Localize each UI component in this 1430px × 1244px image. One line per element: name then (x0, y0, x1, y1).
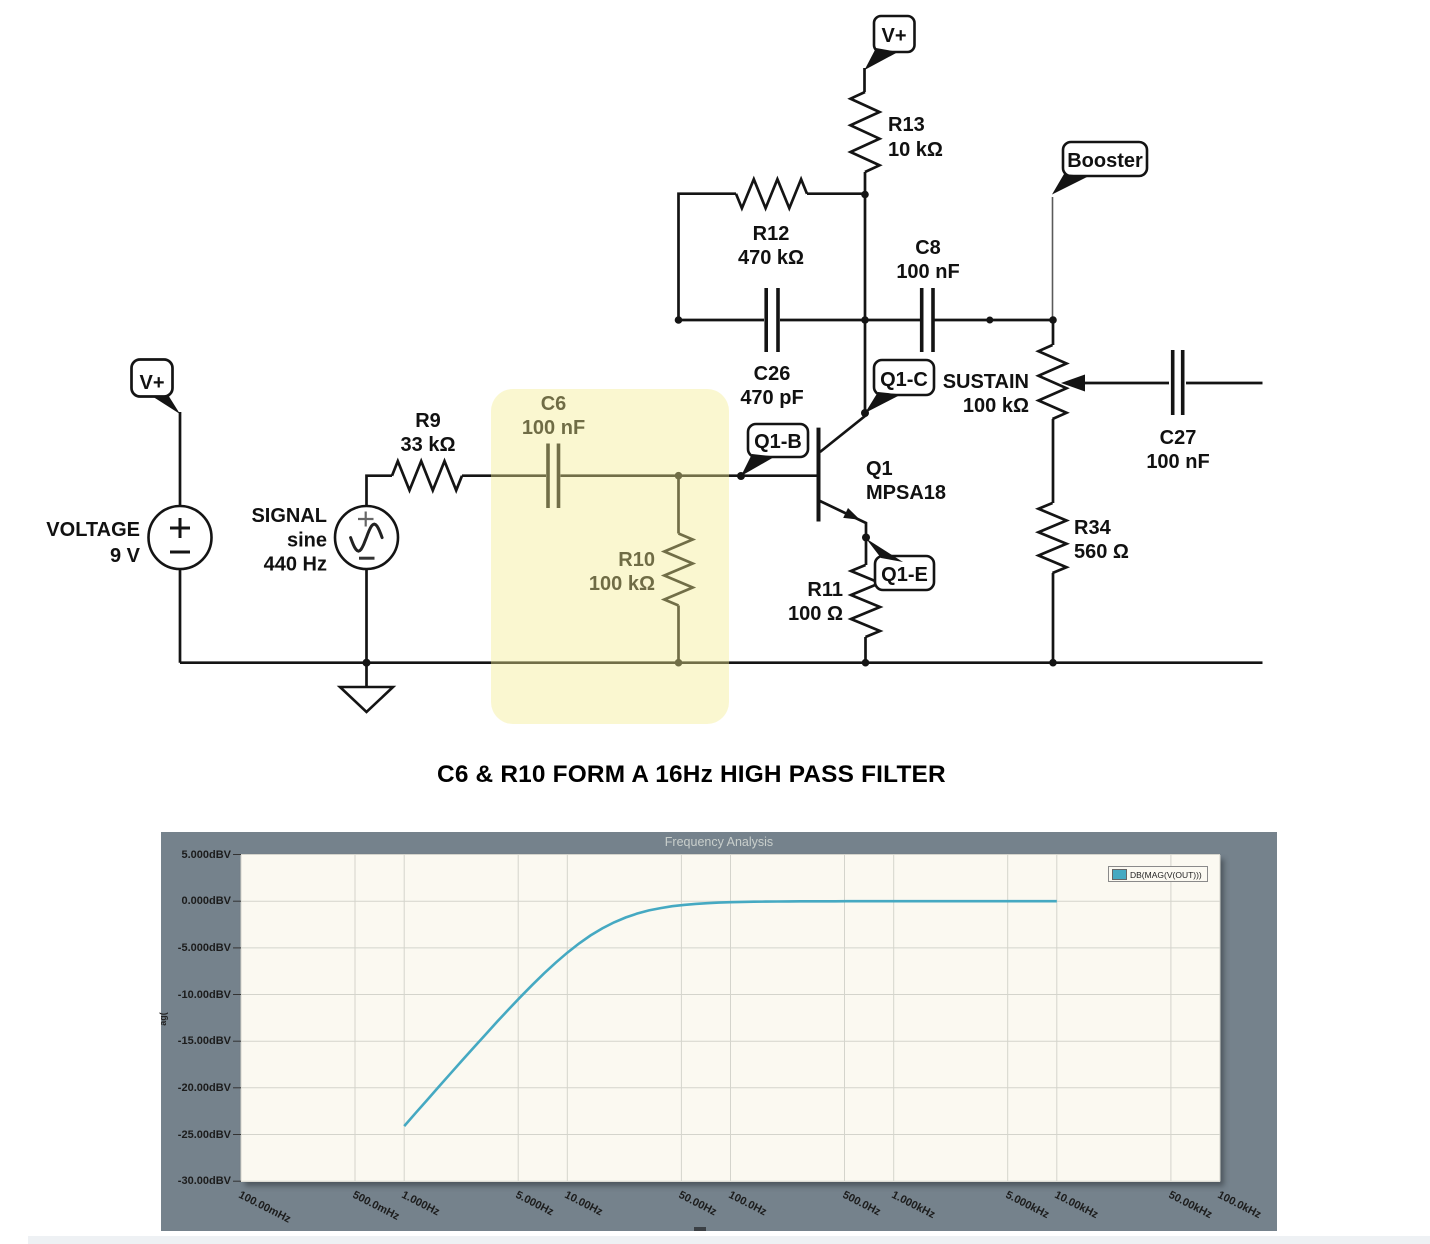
capacitor C26 (740, 288, 803, 409)
wire R10 top (677, 476, 680, 534)
grid (241, 855, 1220, 1182)
scrollbar caret (694, 1227, 706, 1231)
wire R12 top line (679, 194, 866, 320)
voltage source V1 (46, 506, 211, 569)
resistor R12 (736, 179, 807, 269)
svg-text:R9: R9 (415, 410, 441, 432)
response curve (404, 901, 1057, 1126)
highlight C6-R10 (491, 389, 729, 724)
callout Q1-C (865, 360, 934, 413)
wire V+ to R13 (863, 68, 866, 92)
svg-text:470 kΩ: 470 kΩ (738, 247, 804, 269)
axis ticks (233, 855, 241, 1182)
wire wiper to C27 (1085, 382, 1169, 385)
ground rail (180, 661, 1263, 664)
svg-text:R12: R12 (753, 223, 790, 245)
svg-text:R34: R34 (1074, 517, 1112, 539)
svg-text:C27: C27 (1160, 427, 1197, 449)
wire R13 to node (864, 172, 867, 195)
flag V+ top (865, 16, 915, 70)
wire booster drop (thin) (1052, 197, 1054, 320)
wire R11 bottom (864, 637, 867, 663)
svg-text:100 nF: 100 nF (896, 261, 959, 283)
signal source sine (251, 505, 398, 576)
svg-text:Q1: Q1 (866, 458, 893, 480)
svg-text:440 Hz: 440 Hz (264, 554, 327, 576)
svg-text:sine: sine (287, 530, 327, 552)
svg-text:100 Ω: 100 Ω (788, 603, 843, 625)
svg-text:MPSA18: MPSA18 (866, 482, 946, 504)
wire signal top (367, 476, 393, 506)
flag Booster (1052, 142, 1147, 195)
legend (1108, 866, 1208, 882)
resistor R9 (392, 410, 462, 490)
capacitor C27 (1146, 350, 1209, 473)
svg-text:VOLTAGE: VOLTAGE (46, 519, 140, 541)
capacitor C8 (896, 237, 959, 352)
wire collector up (864, 320, 867, 413)
wire C8 to booster corner (935, 319, 1054, 322)
flag V+ left (132, 360, 181, 415)
wire R9 to C6 (462, 474, 546, 477)
svg-text:33 kΩ: 33 kΩ (401, 434, 456, 456)
wire pot top (1052, 320, 1055, 345)
wire node to C-line (864, 195, 867, 320)
svg-text:Booster: Booster (1067, 150, 1143, 172)
svg-text:SUSTAIN: SUSTAIN (943, 371, 1029, 393)
wire C8 line left (865, 319, 920, 322)
ground (340, 663, 393, 712)
svg-text:R11: R11 (807, 579, 843, 601)
transistor Q1 (819, 413, 947, 538)
svg-text:Q1-B: Q1-B (754, 431, 802, 453)
svg-text:V+: V+ (881, 25, 906, 47)
caption (437, 761, 946, 789)
callout Q1-E (866, 539, 934, 591)
junction dots (363, 191, 1057, 667)
wire emitter to R11 (865, 538, 868, 566)
resistor R11 (788, 565, 880, 637)
resistor R10 (589, 534, 693, 606)
wire pot to R34 (1052, 419, 1055, 503)
svg-text:R13: R13 (888, 114, 925, 136)
wire signal bottom (365, 569, 368, 663)
svg-text:100 kΩ: 100 kΩ (963, 395, 1029, 417)
svg-text:Q1-E: Q1-E (881, 564, 928, 586)
svg-text:10 kΩ: 10 kΩ (888, 139, 943, 161)
svg-text:Q1-C: Q1-C (880, 369, 928, 391)
wire C6 to base (561, 474, 818, 477)
wire V+ left drop (179, 412, 182, 506)
wire C26 line left (679, 319, 765, 322)
resistor R13 (851, 92, 943, 172)
capacitor C6 (522, 393, 585, 508)
svg-text:100 nF: 100 nF (1146, 451, 1209, 473)
svg-text:C8: C8 (915, 237, 941, 259)
wire voltage to rail (179, 569, 182, 663)
wire R10 bottom (677, 606, 680, 663)
wire C27 right (1186, 382, 1263, 385)
svg-text:560 Ω: 560 Ω (1074, 541, 1129, 563)
svg-text:V+: V+ (139, 372, 164, 394)
svg-text:470 pF: 470 pF (740, 387, 803, 409)
frequency analysis panel (161, 832, 1277, 1231)
svg-text:SIGNAL: SIGNAL (251, 505, 327, 527)
wire C26 to junction (780, 319, 865, 322)
callout Q1-B (741, 424, 808, 476)
resistor R34 (1039, 503, 1129, 573)
svg-text:C26: C26 (754, 363, 791, 385)
svg-text:9 V: 9 V (110, 545, 141, 567)
wire R34 to rail (1052, 573, 1055, 663)
potentiometer SUSTAIN (943, 345, 1085, 419)
